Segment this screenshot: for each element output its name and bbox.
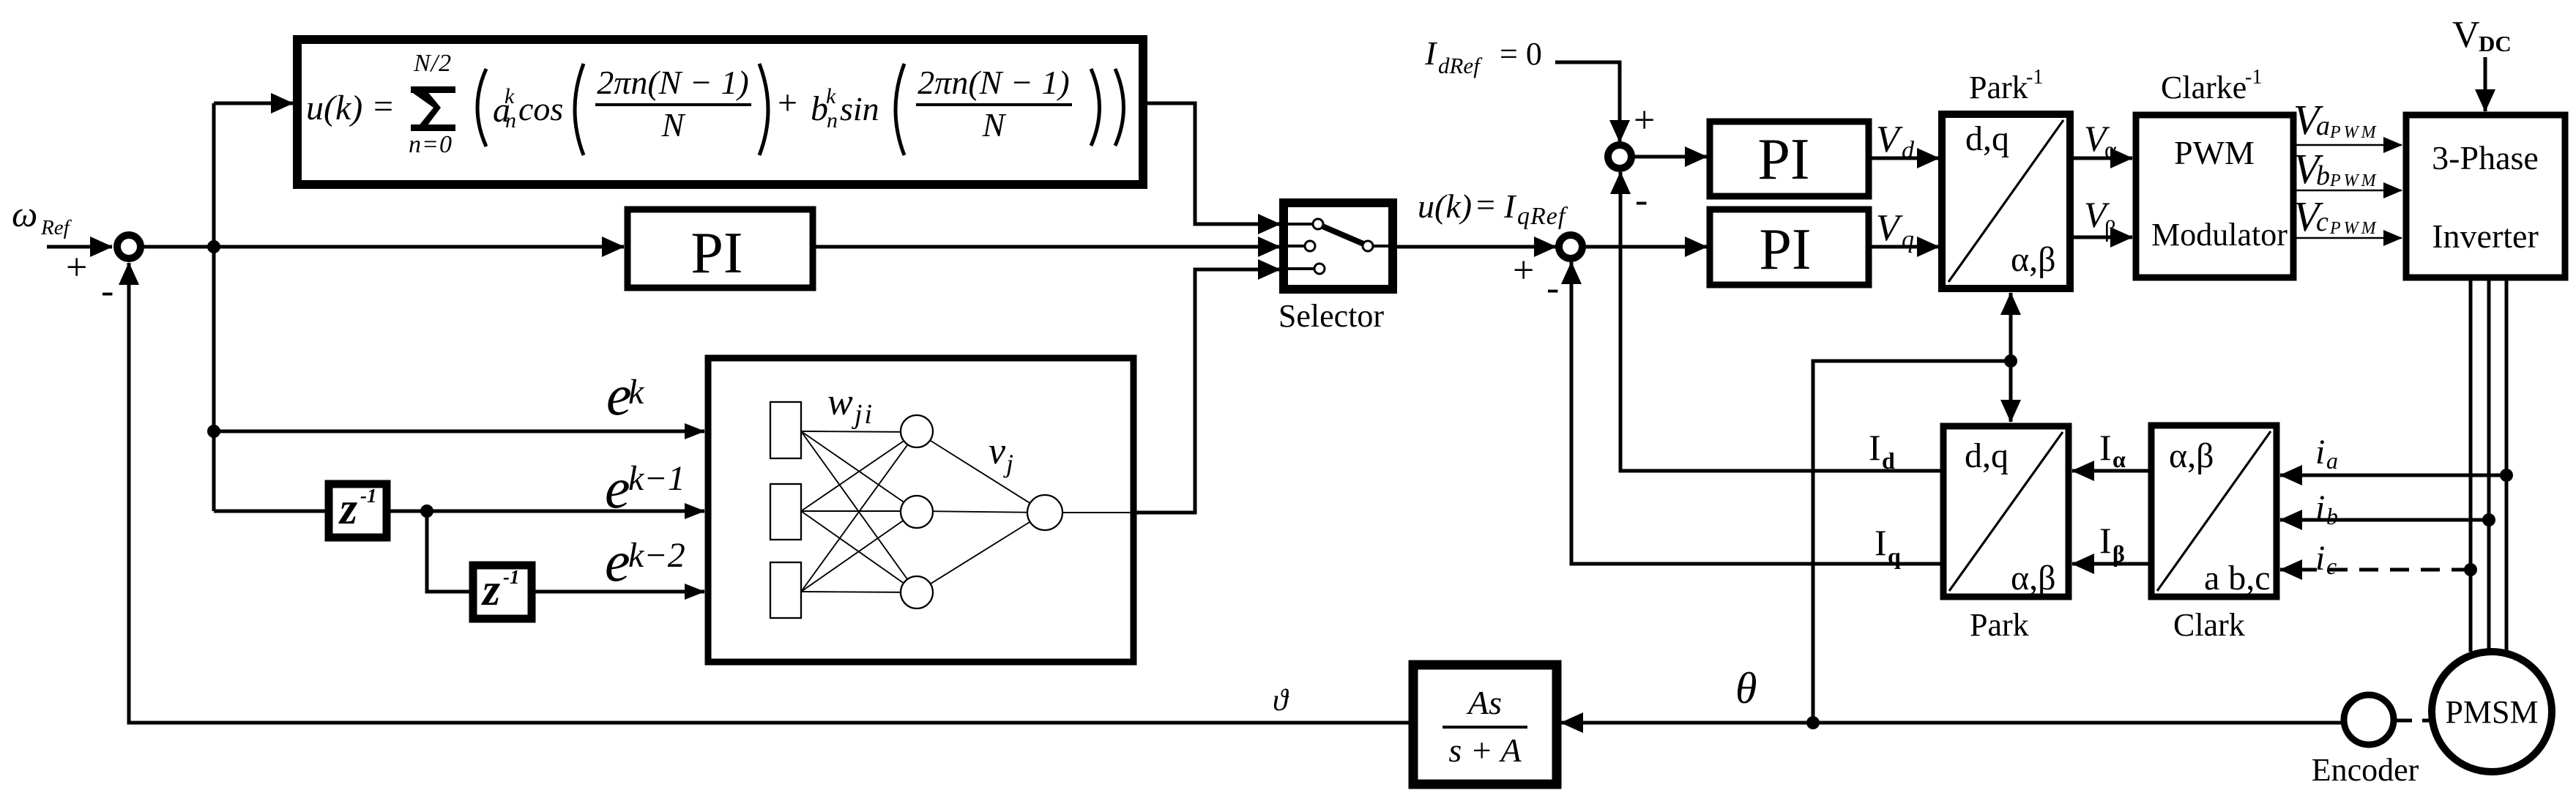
svg-text:N: N	[661, 106, 686, 144]
svg-text:Modulator: Modulator	[2151, 217, 2287, 253]
svg-text:θ: θ	[1735, 664, 1757, 712]
svg-text:N/2: N/2	[413, 50, 452, 77]
svg-text:2πn(N − 1): 2πn(N − 1)	[597, 64, 748, 101]
svg-text:dRef: dRef	[1438, 53, 1483, 78]
svg-text:sin: sin	[840, 90, 879, 127]
svg-text:=: =	[373, 87, 393, 126]
svg-text:+: +	[778, 83, 797, 122]
svg-text:As: As	[1466, 684, 1502, 721]
svg-text:k: k	[628, 373, 645, 412]
svg-text:+: +	[1513, 250, 1534, 291]
svg-text:n: n	[505, 108, 516, 133]
svg-text:i: i	[2315, 488, 2325, 527]
svg-text:w: w	[827, 381, 853, 423]
svg-text:c: c	[2326, 553, 2337, 579]
svg-text:Clarke: Clarke	[2161, 70, 2246, 105]
svg-text:β: β	[2112, 540, 2125, 567]
svg-text:a: a	[2316, 111, 2330, 141]
svg-text:α,β: α,β	[2011, 240, 2056, 279]
svg-text:V: V	[1876, 119, 1903, 160]
svg-text:Inverter: Inverter	[2432, 217, 2539, 255]
svg-text:Selector: Selector	[1278, 298, 1385, 334]
svg-text:= 0: = 0	[1500, 36, 1542, 72]
svg-text:cos: cos	[518, 90, 563, 127]
svg-text:PMSM: PMSM	[2445, 694, 2538, 730]
svg-text:-: -	[1546, 267, 1559, 309]
svg-text:i: i	[2315, 433, 2325, 472]
svg-text:d: d	[1882, 447, 1895, 474]
svg-text:-1: -1	[2026, 66, 2043, 89]
svg-text:a b,c: a b,c	[2204, 559, 2271, 597]
svg-text:Ref: Ref	[40, 216, 72, 239]
svg-text:Clark: Clark	[2173, 607, 2245, 643]
svg-text:qRef: qRef	[1517, 203, 1568, 230]
svg-text:PI: PI	[1757, 127, 1809, 192]
svg-text:u(k): u(k)	[306, 89, 362, 127]
svg-text:N: N	[982, 106, 1007, 144]
svg-text:k−1: k−1	[628, 459, 685, 498]
svg-text:PWM: PWM	[2329, 123, 2379, 142]
svg-text:e: e	[605, 456, 630, 520]
svg-text:PI: PI	[1759, 217, 1811, 282]
svg-text:e: e	[605, 529, 630, 593]
svg-text:-: -	[101, 270, 113, 312]
svg-text:k: k	[505, 84, 515, 108]
svg-text:PWM: PWM	[2174, 134, 2255, 171]
svg-text:c: c	[2316, 206, 2329, 237]
svg-text:n=0: n=0	[409, 131, 453, 158]
svg-text:ω: ω	[12, 193, 37, 234]
svg-text:ϑ: ϑ	[1273, 684, 1289, 718]
svg-text:u(k): u(k)	[1418, 187, 1472, 225]
svg-text:d,q: d,q	[1965, 119, 2009, 158]
svg-text:k: k	[826, 84, 836, 108]
svg-text:PI: PI	[690, 221, 742, 286]
svg-text:k−2: k−2	[628, 536, 685, 575]
svg-text:q: q	[1902, 226, 1914, 253]
svg-text:+: +	[66, 247, 87, 288]
svg-text:I: I	[1424, 34, 1438, 72]
svg-text:PWM: PWM	[2329, 219, 2379, 238]
svg-text:ji: ji	[851, 399, 874, 430]
svg-text:V: V	[2452, 14, 2480, 56]
svg-text:2πn(N − 1): 2πn(N − 1)	[917, 64, 1069, 101]
svg-text:n: n	[827, 108, 838, 133]
svg-text:V: V	[1876, 207, 1903, 249]
svg-text:q: q	[1888, 543, 1901, 569]
svg-text:I: I	[2099, 520, 2112, 561]
svg-text:a: a	[2326, 447, 2338, 474]
svg-text:-1: -1	[2245, 66, 2262, 89]
svg-text:-1: -1	[360, 485, 377, 507]
svg-text:I: I	[1503, 187, 1517, 225]
svg-text:=: =	[1476, 186, 1495, 223]
svg-text:I: I	[2099, 427, 2112, 468]
svg-text:z: z	[338, 484, 357, 534]
svg-text:Park: Park	[1970, 607, 2029, 643]
svg-text:+: +	[1634, 100, 1655, 141]
svg-text:PWM: PWM	[2329, 171, 2379, 190]
svg-text:-1: -1	[503, 566, 520, 588]
svg-text:b: b	[2316, 160, 2330, 191]
svg-text:I: I	[1875, 522, 1887, 563]
svg-text:Encoder: Encoder	[2312, 752, 2419, 788]
svg-text:Park: Park	[1969, 70, 2028, 105]
svg-text:v: v	[989, 431, 1006, 472]
svg-text:DC: DC	[2479, 31, 2512, 56]
svg-text:3-Phase: 3-Phase	[2432, 139, 2539, 176]
svg-text:α: α	[2112, 446, 2126, 472]
svg-text:z: z	[481, 565, 500, 615]
svg-text:b: b	[2326, 503, 2338, 529]
svg-text:α,β: α,β	[2169, 436, 2214, 475]
svg-text:s + A: s + A	[1448, 731, 1522, 769]
svg-text:i: i	[2315, 539, 2325, 578]
svg-text:-: -	[1635, 179, 1648, 221]
svg-text:I: I	[1869, 427, 1881, 468]
svg-text:α,β: α,β	[2011, 559, 2056, 597]
svg-text:d,q: d,q	[1965, 436, 2009, 475]
